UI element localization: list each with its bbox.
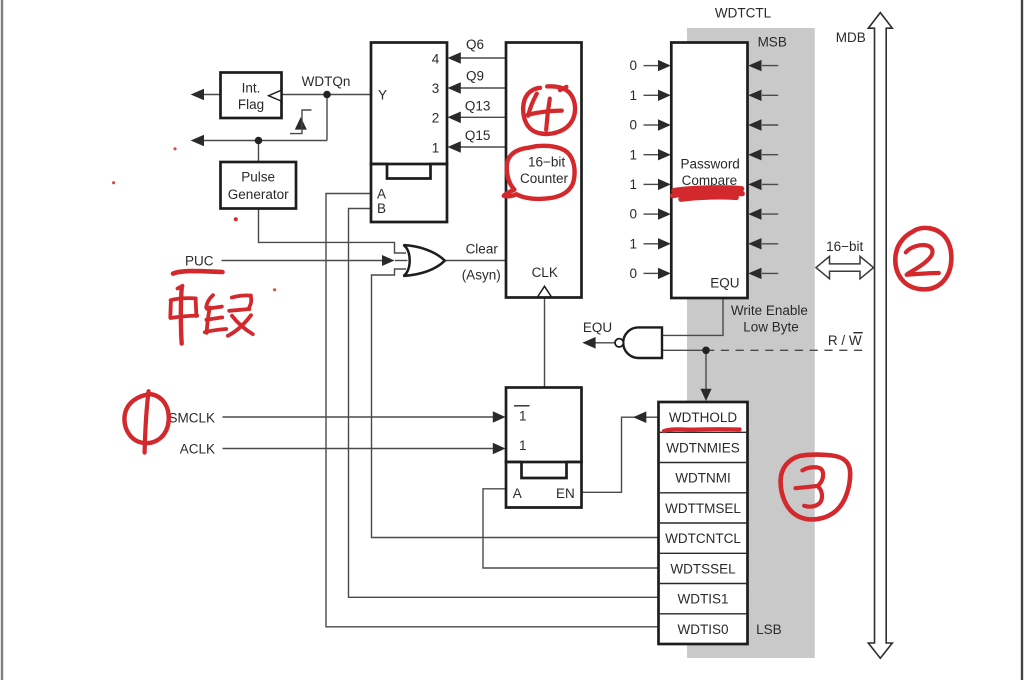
svg-text:1: 1 [519, 409, 527, 424]
wire: password compare EQU to NAND upper input [663, 298, 723, 335]
Y tap selector block [371, 43, 447, 165]
svg-text:MSB: MSB [758, 35, 787, 50]
wire: Q9 tap [459, 87, 506, 89]
svg-text:Pulse: Pulse [241, 170, 275, 185]
OR gate (counter clear) [403, 245, 444, 276]
red speck left of pulse generator [112, 181, 115, 184]
svg-text:WDTIS1: WDTIS1 [677, 592, 728, 607]
svg-text:(Asyn): (Asyn) [462, 267, 501, 282]
red annotation circle 3 on gray band [781, 455, 851, 520]
svg-text:1: 1 [629, 147, 637, 162]
arrowhead: EQU output (left) [582, 337, 595, 349]
svg-text:WDTNMIES: WDTNMIES [666, 440, 740, 455]
svg-text:WDTHOLD: WDTHOLD [669, 410, 737, 425]
password bit row 4 (value 1) [629, 177, 778, 192]
wire: counter CLK from clock mux [544, 298, 546, 388]
svg-text:PUC: PUC [185, 253, 214, 268]
A/B select block under Y [371, 164, 447, 222]
svg-text:WDTCNTCL: WDTCNTCL [665, 531, 741, 546]
arrowhead: SMCLK into mux (right) [493, 411, 506, 423]
svg-text:EQU: EQU [583, 320, 612, 335]
red handwriting: character 中 [178, 286, 183, 289]
svg-text:LSB: LSB [756, 622, 782, 637]
arrowhead: ACLK into mux (right) [493, 443, 506, 455]
svg-text:A: A [377, 186, 386, 201]
red annotation circle 2 beside MDB bus [895, 228, 951, 289]
svg-text:A: A [513, 486, 522, 501]
wire: pulse generator input drop [258, 141, 260, 163]
wire: WDTIS1 feedback to selector input B [349, 209, 659, 598]
wire: NAND output to EQU arrow [595, 342, 615, 344]
wire: WDTCNTCL feedback to OR gate lower input [372, 269, 659, 538]
clock source mux block [506, 388, 582, 463]
password bit row 3 (value 1) [629, 147, 778, 162]
password bit row 7 (value 0) [629, 266, 778, 281]
wire: PUC stub into OR gate [395, 260, 408, 262]
interrupt flag block [221, 73, 282, 119]
wire: SMCLK line [223, 416, 495, 418]
svg-text:WDTQn: WDTQn [302, 74, 351, 89]
svg-text:WDTNMI: WDTNMI [675, 471, 730, 486]
svg-text:0: 0 [629, 266, 637, 281]
red scribble under Password Compare [673, 188, 743, 199]
NAND gate (write enable) [615, 327, 662, 358]
svg-text:WDTIS0: WDTIS0 [677, 622, 728, 637]
red underline under PUC [173, 271, 223, 274]
arrowhead: Q15 into Y box (left) [448, 141, 461, 153]
wire: lower tap line to left arrow [203, 140, 327, 142]
svg-text:Q15: Q15 [465, 128, 491, 143]
svg-text:SMCLK: SMCLK [168, 410, 215, 425]
svg-text:EQU: EQU [710, 275, 739, 290]
arrowhead: Q13 into Y box (left) [448, 112, 461, 124]
arrowhead: Q9 into Y box (left) [448, 82, 461, 94]
svg-text:1: 1 [629, 177, 637, 192]
svg-text:1: 1 [519, 438, 527, 453]
page right border [1021, 0, 1023, 680]
red speck near Y box [173, 147, 176, 150]
wire: WDTHOLD to EN of clock enable [582, 417, 659, 492]
wire: node WDTQn vertical drop [326, 95, 328, 141]
svg-text:ACLK: ACLK [180, 441, 215, 456]
wire: write strobe down to WDTHOLD register [705, 350, 707, 389]
password compare block [671, 43, 747, 299]
red handwriting: character 段 [206, 295, 213, 307]
svg-text:EN: EN [556, 486, 575, 501]
page left border [1, 0, 3, 680]
svg-text:0: 0 [629, 118, 637, 133]
svg-text:Q6: Q6 [466, 37, 484, 52]
svg-text:1: 1 [629, 236, 637, 251]
arrowhead: Int.Flag output (left) [191, 89, 204, 101]
svg-text:Flag: Flag [238, 97, 264, 112]
svg-text:Q13: Q13 [465, 98, 491, 113]
wire: Int.Flag output to left [203, 94, 221, 96]
svg-text:2: 2 [432, 111, 440, 126]
password bit row 2 (value 0) [629, 118, 778, 133]
password bit row 1 (value 1) [629, 88, 778, 103]
arrowhead: Q6 into Y box (left) [448, 52, 461, 64]
wire: OR gate output to counter Clear [443, 260, 506, 262]
red annotation circle 4 above counter [523, 86, 575, 134]
svg-text:WDTSSEL: WDTSSEL [670, 561, 736, 576]
password bit row 5 (value 0) [629, 207, 778, 222]
svg-text:R / W: R / W [828, 333, 862, 348]
svg-text:Clear: Clear [466, 242, 499, 257]
red annotation circle 1 around SMCLK [124, 394, 168, 443]
svg-text:Generator: Generator [228, 187, 289, 202]
wire: Q6 tap [459, 57, 506, 59]
wire: PUC line [222, 260, 386, 262]
svg-text:Q9: Q9 [466, 69, 484, 84]
wire: R/W dashed line [706, 349, 866, 351]
arrowhead: rising edge symbol (up) [295, 117, 307, 130]
pulse generator block [221, 162, 297, 209]
svg-text:Password: Password [681, 157, 740, 172]
red speck below PUC area [273, 288, 276, 291]
junction node pulse-generator tap [255, 137, 263, 145]
A/EN clock enable block [506, 462, 582, 508]
svg-text:Write Enable: Write Enable [731, 303, 808, 318]
svg-text:Low Byte: Low Byte [743, 320, 799, 335]
WDTCTL control register bit stack [659, 402, 748, 644]
MDB bus arrow (vertical double-headed) [868, 13, 892, 659]
svg-text:B: B [377, 201, 386, 216]
wire: Q13 tap [459, 116, 506, 118]
wire: WDTQn net from Int.Flag to Y box [282, 94, 371, 96]
wire: pulse generator output to OR gate upper input [259, 209, 407, 254]
svg-text:0: 0 [629, 207, 637, 222]
svg-text:16−bit: 16−bit [826, 239, 863, 254]
svg-text:WDTCTL: WDTCTL [715, 6, 772, 21]
junction node R/W write strobe [702, 347, 710, 355]
password bit row 6 (value 1) [629, 236, 778, 251]
svg-text:1: 1 [629, 88, 637, 103]
svg-text:Counter: Counter [520, 171, 569, 186]
red speck below pulse generator [234, 217, 238, 221]
junction node WDTQn [323, 91, 331, 99]
red blob circle around 16-bit Counter text [504, 146, 575, 199]
arrowhead: lower tap (left) [191, 135, 204, 147]
svg-text:3: 3 [432, 81, 440, 96]
WDTCTL register gray band [687, 28, 815, 658]
16-bit bus arrow (horizontal double-headed) [816, 256, 874, 278]
svg-text:Int.: Int. [242, 81, 261, 96]
arrowhead: WDTHOLD wire (left) [633, 411, 646, 423]
wire: WDTIS0 feedback to selector input A [326, 194, 659, 627]
wire: NAND lower input from R/W node [663, 349, 706, 351]
svg-text:WDTTMSEL: WDTTMSEL [665, 501, 741, 516]
wire: ACLK line [223, 448, 495, 450]
wire: WDTSSEL feedback to mux select A [483, 489, 659, 568]
svg-text:16−bit: 16−bit [528, 155, 565, 170]
svg-text:MDB: MDB [836, 30, 866, 45]
arrowhead: PUC into OR gate (right) [382, 255, 395, 266]
wire: Q15 tap [459, 146, 506, 148]
svg-text:0: 0 [629, 58, 637, 73]
arrowhead: write strobe into WDTHOLD (down) [700, 389, 711, 401]
svg-text:4: 4 [432, 51, 440, 66]
svg-text:CLK: CLK [532, 265, 558, 280]
svg-text:Y: Y [378, 88, 387, 103]
svg-text:1: 1 [432, 140, 440, 155]
rising edge trigger symbol at pulse generator input [290, 110, 312, 134]
red underline under WDTHOLD [664, 429, 740, 431]
password bit row 0 (value 0) [629, 58, 778, 73]
16-bit counter block [506, 43, 582, 298]
